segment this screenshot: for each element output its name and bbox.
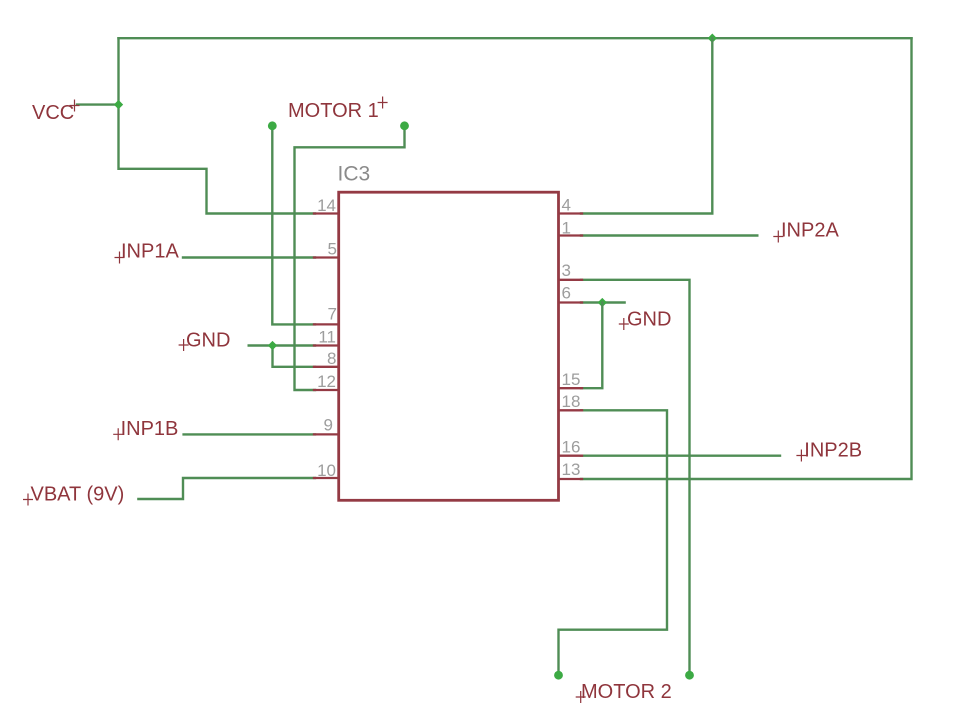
wire GND right branch to pin 15 — [581, 303, 602, 389]
ic IC3 pin 8 stub — [314, 366, 338, 368]
svg-text:9: 9 — [324, 416, 333, 435]
origin cross VBAT — [23, 494, 33, 506]
svg-text:GND: GND — [186, 330, 230, 352]
wire pin 1 to INP2A — [581, 234, 757, 236]
wire VCC top horizontal — [119, 37, 912, 39]
svg-text:7: 7 — [328, 305, 337, 324]
ic IC3 pin 6 stub — [559, 301, 582, 303]
svg-text:13: 13 — [562, 460, 581, 479]
svg-text:5: 5 — [328, 240, 337, 259]
svg-text:MOTOR 2: MOTOR 2 — [581, 681, 672, 703]
node MOTOR2 terminal 2 — [685, 671, 694, 680]
wire VCC left vertical to pin 14 — [119, 38, 316, 213]
svg-text:15: 15 — [562, 370, 581, 389]
node MOTOR1 terminal 2 — [400, 121, 409, 130]
ic IC3 pin 14 stub — [314, 212, 338, 214]
svg-text:16: 16 — [562, 438, 581, 457]
wire VBAT to pin 10 — [138, 478, 315, 499]
origin cross GND right — [619, 318, 629, 330]
svg-text:1: 1 — [562, 219, 571, 238]
svg-text:INP2B: INP2B — [804, 440, 862, 462]
svg-text:6: 6 — [562, 284, 571, 303]
ic IC3 pin 7 stub — [314, 323, 338, 325]
wire GND left branch to pin 8 — [273, 346, 316, 367]
wire pin 18 to MOTOR2 terminal 1 — [559, 410, 668, 675]
origin cross MOTOR 2 — [576, 691, 586, 703]
ic IC3 pin 18 stub — [559, 409, 582, 411]
wire MOTOR1 terminal 2 to pin 12 — [295, 126, 405, 390]
origin cross INP1A — [115, 252, 125, 264]
ic IC3 body — [339, 192, 559, 500]
junction VCC — [114, 100, 123, 109]
svg-text:10: 10 — [317, 461, 336, 480]
junction top wire / pin 4 — [708, 34, 717, 43]
wire INP1A to pin 5 — [183, 256, 315, 258]
origin cross INP2B — [796, 450, 806, 462]
junction GND right — [598, 298, 607, 307]
svg-text:11: 11 — [318, 328, 336, 347]
ic IC3 pin 3 stub — [559, 279, 582, 281]
ic IC3 pin 13 stub — [559, 478, 582, 480]
wire pin 4 to top junction — [581, 38, 712, 213]
wire INP1B to pin 9 — [184, 433, 315, 435]
ic IC3 pin 1 stub — [559, 234, 582, 236]
svg-text:VCC: VCC — [32, 102, 74, 124]
svg-text:3: 3 — [562, 261, 571, 280]
ic IC3 pin 15 stub — [559, 387, 582, 389]
svg-text:12: 12 — [317, 372, 336, 391]
wire VCC right edge down to pin 13 — [581, 38, 912, 479]
ic IC3 pin 4 stub — [559, 212, 582, 214]
ic IC3 pin 12 stub — [314, 389, 338, 391]
ic IC3 pin 11 stub — [314, 344, 338, 346]
junction GND left — [268, 341, 277, 350]
svg-text:14: 14 — [317, 196, 336, 215]
svg-text:VBAT (9V): VBAT (9V) — [31, 484, 125, 506]
supply cross VCC — [70, 100, 80, 112]
wire GND left to pin 11 — [249, 344, 315, 346]
origin cross INP1B — [113, 428, 123, 440]
svg-text:4: 4 — [562, 196, 571, 215]
origin cross MOTOR 1 — [378, 97, 388, 109]
wire pin 16 to INP2B — [581, 455, 780, 457]
wire VCC label stub — [77, 103, 119, 105]
node MOTOR2 terminal 1 — [554, 671, 563, 680]
svg-text:GND: GND — [627, 309, 671, 331]
wire MOTOR1 terminal 1 to pin 7 — [272, 126, 315, 325]
wire pin 3 to MOTOR2 terminal 2 — [581, 280, 690, 675]
origin cross GND left — [179, 339, 189, 351]
svg-text:8: 8 — [327, 349, 336, 368]
ic IC3 pin 9 stub — [314, 433, 338, 435]
node MOTOR1 terminal 1 — [268, 121, 277, 130]
svg-text:MOTOR 1: MOTOR 1 — [288, 100, 379, 122]
svg-text:18: 18 — [562, 392, 581, 411]
origin cross INP2A — [773, 231, 783, 243]
svg-text:IC3: IC3 — [338, 163, 371, 186]
svg-text:INP2A: INP2A — [781, 220, 839, 242]
ic IC3 pin 10 stub — [314, 477, 338, 479]
svg-text:INP1B: INP1B — [121, 418, 179, 440]
ic IC3 pin 16 stub — [559, 455, 582, 457]
wire pin 6 to GND right — [581, 301, 625, 303]
ic IC3 pin 5 stub — [314, 256, 338, 258]
svg-text:INP1A: INP1A — [121, 241, 179, 263]
